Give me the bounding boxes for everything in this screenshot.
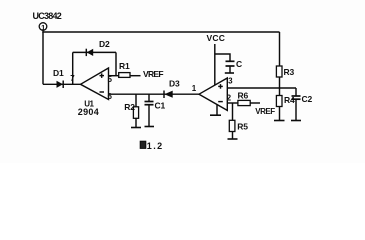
svg-text:7: 7 (70, 74, 75, 83)
capacitor C2 (292, 88, 313, 120)
capacitor C1 (145, 94, 166, 126)
svg-text:R3: R3 (284, 67, 295, 77)
svg-text:C: C (236, 59, 242, 69)
svg-text:R1: R1 (119, 61, 130, 71)
svg-text:C1: C1 (155, 100, 166, 110)
svg-text:VREF: VREF (255, 107, 275, 116)
wire top bus from pin1 to R3 (43, 30, 280, 32)
svg-text:D3: D3 (169, 78, 180, 88)
ground under R4 (274, 120, 285, 122)
svg-text:D1: D1 (53, 68, 64, 78)
wire R6 to VREF (250, 102, 260, 104)
resistor R3 (276, 66, 294, 88)
resistor R6 (238, 91, 251, 106)
svg-text:R5: R5 (237, 122, 248, 132)
op-amp U1 (2904) (70, 68, 112, 117)
wire feedback left vertical (72, 52, 74, 84)
svg-text:R6: R6 (238, 91, 249, 101)
wire U2 pin2 line (227, 102, 238, 104)
resistor R2 (124, 94, 138, 127)
svg-text:2904: 2904 (78, 107, 99, 117)
svg-text:2: 2 (227, 94, 232, 103)
wire output U1 pin7 (43, 83, 81, 85)
wire VCC branch to C (215, 54, 230, 61)
resistor R4 (276, 88, 295, 120)
diode D3 (164, 78, 180, 98)
svg-text:3: 3 (228, 77, 233, 86)
resistor R1 (119, 61, 130, 77)
ground U2 pin4 (210, 105, 221, 116)
diode D2 (86, 39, 110, 56)
resistor R5 (229, 103, 248, 139)
capacitor C (225, 59, 242, 73)
svg-text:VCC: VCC (207, 33, 226, 43)
op-amp U2 (199, 77, 233, 111)
wire U1 pin6 net to U2 output (109, 93, 200, 95)
wire left vertical pin1 down (42, 32, 44, 84)
svg-text:D2: D2 (99, 39, 110, 49)
pin 1 terminal circle (39, 23, 47, 32)
ground under R2 (131, 127, 141, 129)
wire feedback right vertical (115, 52, 117, 75)
ground under C2 (291, 120, 301, 122)
wire R1 to VREF (130, 75, 141, 77)
wire VCC down to U2 top edge (214, 44, 216, 85)
svg-text:1: 1 (192, 84, 197, 93)
wire U2 pin3 line (227, 87, 296, 89)
svg-text:R2: R2 (124, 102, 135, 112)
svg-text:UC3842: UC3842 (33, 11, 62, 21)
svg-text:VREF: VREF (143, 69, 163, 79)
caption 图1.2 (140, 141, 163, 151)
svg-text:C2: C2 (302, 94, 313, 104)
wire feedback top (73, 51, 116, 53)
ground under C1 (145, 126, 155, 128)
svg-text:1.2: 1.2 (147, 141, 164, 151)
wire U1 pin5 to R1 (109, 75, 119, 77)
ground under R5 (228, 138, 238, 140)
wire right vertical from top bus (279, 32, 281, 66)
diode D1 (53, 68, 64, 88)
